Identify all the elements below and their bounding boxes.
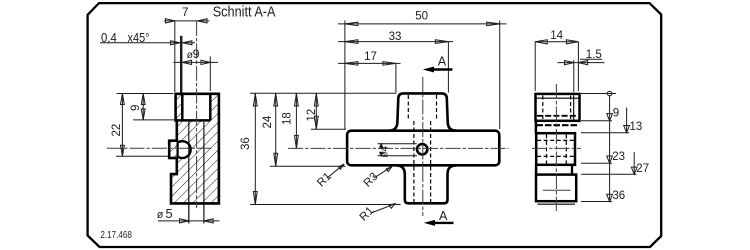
svg-text:27: 27	[636, 163, 649, 175]
svg-text:ø4: ø4	[378, 146, 390, 158]
svg-text:ø: ø	[157, 209, 164, 221]
section arrows A-A	[423, 67, 454, 226]
counterbore dia9 walls and bottom	[176, 94, 211, 121]
o4	[378, 143, 417, 145]
svg-text:14: 14	[550, 30, 563, 42]
centerlines	[422, 77, 424, 216]
33	[338, 41, 453, 43]
front view dimensions	[250, 21, 507, 214]
svg-text:22: 22	[111, 124, 123, 137]
hidden dashes between blocks	[537, 115, 578, 117]
right view texts	[550, 30, 649, 202]
open v arrows pointing down	[607, 114, 613, 121]
dim 9 depth	[142, 94, 144, 120]
bottom boss front view	[397, 165, 456, 203]
dim 22	[121, 94, 123, 157]
svg-text:23: 23	[612, 151, 625, 163]
dim 7	[164, 20, 209, 22]
svg-text:7: 7	[182, 7, 188, 19]
svg-text:A: A	[438, 54, 447, 68]
center hole dia4	[417, 144, 427, 154]
right view middle block	[536, 133, 575, 165]
left view dimensions	[100, 19, 220, 224]
centerlines	[555, 84, 557, 211]
section outline left view	[169, 94, 219, 204]
cross bar horizontal arm	[347, 131, 499, 166]
1.5	[580, 58, 602, 60]
svg-text:9: 9	[130, 105, 142, 111]
svg-text:Schnitt A-A: Schnitt A-A	[213, 4, 277, 20]
left view texts	[100, 4, 276, 240]
svg-text:9: 9	[193, 47, 200, 61]
hidden lines middle block	[546, 134, 548, 163]
svg-text:18: 18	[281, 112, 293, 125]
front view texts	[240, 10, 448, 223]
chamfer 0,4x45	[100, 42, 195, 44]
svg-text:36: 36	[612, 190, 625, 202]
datum circle and depth dimension lines	[581, 93, 616, 95]
centerline vertical left view	[196, 21, 198, 208]
svg-text:24: 24	[262, 115, 274, 128]
groove edges	[169, 141, 178, 158]
svg-text:17: 17	[364, 51, 377, 63]
svg-text:A: A	[439, 209, 448, 223]
svg-text:33: 33	[389, 31, 402, 43]
cross-bore dia5 arc	[178, 141, 190, 158]
dim o5 bottom	[158, 220, 220, 222]
counterbore bore interior	[182, 94, 210, 121]
vertical dims 36 24 18 12	[250, 92, 396, 94]
svg-text:0,4: 0,4	[101, 30, 117, 45]
svg-text:5: 5	[166, 206, 173, 221]
right view top block	[536, 94, 580, 121]
dim o9	[174, 61, 219, 63]
strip / connector edges	[535, 121, 538, 134]
17	[338, 62, 401, 64]
svg-text:1.5: 1.5	[586, 49, 602, 61]
hidden lines dia5 vertical bore	[413, 121, 415, 202]
svg-text:12: 12	[306, 109, 318, 122]
border frame	[88, 3, 662, 247]
hidden lines dia9 top boss	[407, 95, 409, 121]
hidden lines top block o9	[542, 96, 544, 120]
right view bottom block	[536, 175, 576, 202]
svg-text:13: 13	[630, 121, 643, 133]
right view dimensions	[535, 40, 637, 202]
cross-bore half-round interior	[177, 141, 191, 158]
svg-text:9: 9	[613, 108, 619, 120]
svg-text:x45°: x45°	[128, 30, 150, 45]
R leaders	[327, 164, 344, 178]
14	[535, 41, 578, 43]
svg-text:50: 50	[415, 10, 428, 22]
section hatching left view	[160, 85, 230, 210]
bore dia5 wall lines	[188, 122, 190, 224]
svg-text:2.17.468: 2.17.468	[100, 229, 132, 240]
50	[338, 23, 507, 25]
top boss front view	[389, 93, 456, 130]
svg-text:36: 36	[240, 137, 252, 150]
